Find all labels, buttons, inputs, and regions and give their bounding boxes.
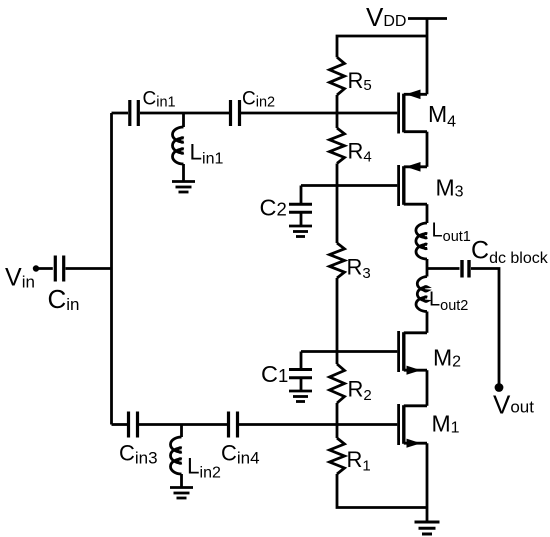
svg-text:Lout1: Lout1 [432, 220, 471, 246]
wire M3 source to Lout1 [426, 204, 429, 223]
wire VDD rail [337, 36, 427, 57]
wire M2 source to M1 drain [426, 370, 429, 406]
svg-text:C2: C2 [260, 195, 287, 221]
svg-text:M4: M4 [428, 101, 456, 131]
ground under C2 [289, 226, 312, 237]
resistor R4 [330, 128, 345, 163]
transistor M1 [399, 404, 427, 448]
wire Cin1 to Cin2 [140, 112, 229, 115]
ground under C1 [289, 391, 312, 402]
svg-text:VDD: VDD [366, 2, 406, 32]
inductor Lin1 [173, 127, 184, 164]
capacitor Cin [55, 256, 63, 282]
node Vin terminal dot [33, 265, 39, 271]
left input bus wire [110, 113, 113, 425]
svg-text:Lin1: Lin1 [190, 140, 224, 168]
svg-text:Cdc block: Cdc block [471, 237, 549, 268]
svg-text:R2: R2 [348, 377, 372, 405]
inductor Lin2 [171, 437, 182, 474]
resistor R1 [330, 438, 345, 474]
wire R4 bottom to node [336, 164, 339, 186]
wire M3 gate line [301, 184, 397, 187]
svg-text:Cin1: Cin1 [143, 89, 176, 111]
capacitor Cdc block [462, 260, 469, 278]
wire C1 to ground [300, 378, 303, 391]
ground under Lin1 [172, 182, 195, 193]
wire Cin3 to Cin4 [139, 423, 227, 426]
wire node to R3 top [336, 186, 339, 244]
wire ground stem [426, 508, 429, 523]
svg-text:Vin: Vin [5, 264, 35, 292]
wire Cdc to Vout corner [471, 269, 499, 385]
svg-text:Cin2: Cin2 [242, 89, 275, 111]
wire Cin4 to M1 gate [239, 423, 397, 426]
wire M4 source to M3 drain [426, 132, 429, 167]
wire Cin2 to M4 gate [241, 112, 397, 115]
wire Lin1 stub [182, 113, 185, 127]
node Vout terminal dot [495, 383, 504, 392]
ground under Lin2 [170, 488, 193, 499]
svg-text:M1: M1 [432, 411, 460, 437]
wire output node to Cdc [427, 267, 460, 270]
svg-text:R1: R1 [347, 447, 371, 475]
wire M1 source to ground rail [426, 443, 429, 507]
wire top input line: bus to Cin1 [112, 112, 129, 115]
svg-text:C1: C1 [261, 361, 288, 387]
svg-text:Vout: Vout [493, 390, 534, 420]
VDD terminal bar [408, 17, 447, 20]
svg-text:M3: M3 [436, 175, 464, 201]
wire C2 to ground [300, 212, 303, 226]
inductor Lout2 [416, 277, 427, 312]
capacitor Cin3 [129, 412, 138, 438]
svg-text:Lout2: Lout2 [429, 289, 468, 315]
wire R2 bottom to node [336, 403, 339, 425]
svg-text:Cin: Cin [48, 284, 80, 314]
wire node to R1 top [336, 425, 339, 439]
capacitor Cin4 [229, 412, 238, 438]
wire M2 gate line [301, 350, 397, 353]
wire Lin2 stub [180, 425, 183, 438]
capacitor C1 [289, 370, 312, 378]
wire VDD drop to M4 drain [426, 19, 429, 95]
wire R5 bottom to node [336, 95, 339, 113]
wire Cin to bus [66, 267, 112, 270]
capacitor Cin2 [231, 100, 240, 126]
transistor M2 [399, 331, 427, 375]
transistor M4 [399, 90, 427, 134]
wire bottom input line: bus to Cin3 [112, 423, 128, 426]
capacitor Cin1 [130, 100, 139, 126]
resistor R2 [330, 364, 345, 403]
svg-text:Cin3: Cin3 [119, 441, 158, 468]
wire R1 bottom to ground rail [337, 474, 427, 508]
svg-text:R5: R5 [348, 68, 372, 94]
wire Vin to Cin [36, 267, 53, 270]
svg-text:R4: R4 [348, 139, 372, 166]
svg-text:Lin2: Lin2 [187, 454, 221, 482]
svg-text:Cin4: Cin4 [221, 441, 260, 468]
wire Lin1 to ground [182, 164, 185, 182]
wire C2 stem [300, 186, 303, 205]
inductor Lout1 [416, 223, 427, 259]
capacitor C2 [289, 204, 312, 212]
wire C1 stem [300, 352, 303, 370]
wire node to R2 top [336, 352, 339, 365]
svg-text:R3: R3 [347, 255, 371, 283]
wire R3 bottom to node [336, 278, 339, 352]
wire Lin2 to ground [180, 474, 183, 488]
svg-text:M2: M2 [433, 345, 461, 371]
wire Lout2 to M2 drain [426, 312, 429, 333]
ground main [415, 522, 440, 534]
resistor R5 [330, 57, 345, 95]
transistor M3 [399, 162, 427, 206]
wire node to R4 top [336, 113, 339, 128]
resistor R3 [330, 243, 345, 278]
wire Lout1 to output node [426, 259, 429, 277]
